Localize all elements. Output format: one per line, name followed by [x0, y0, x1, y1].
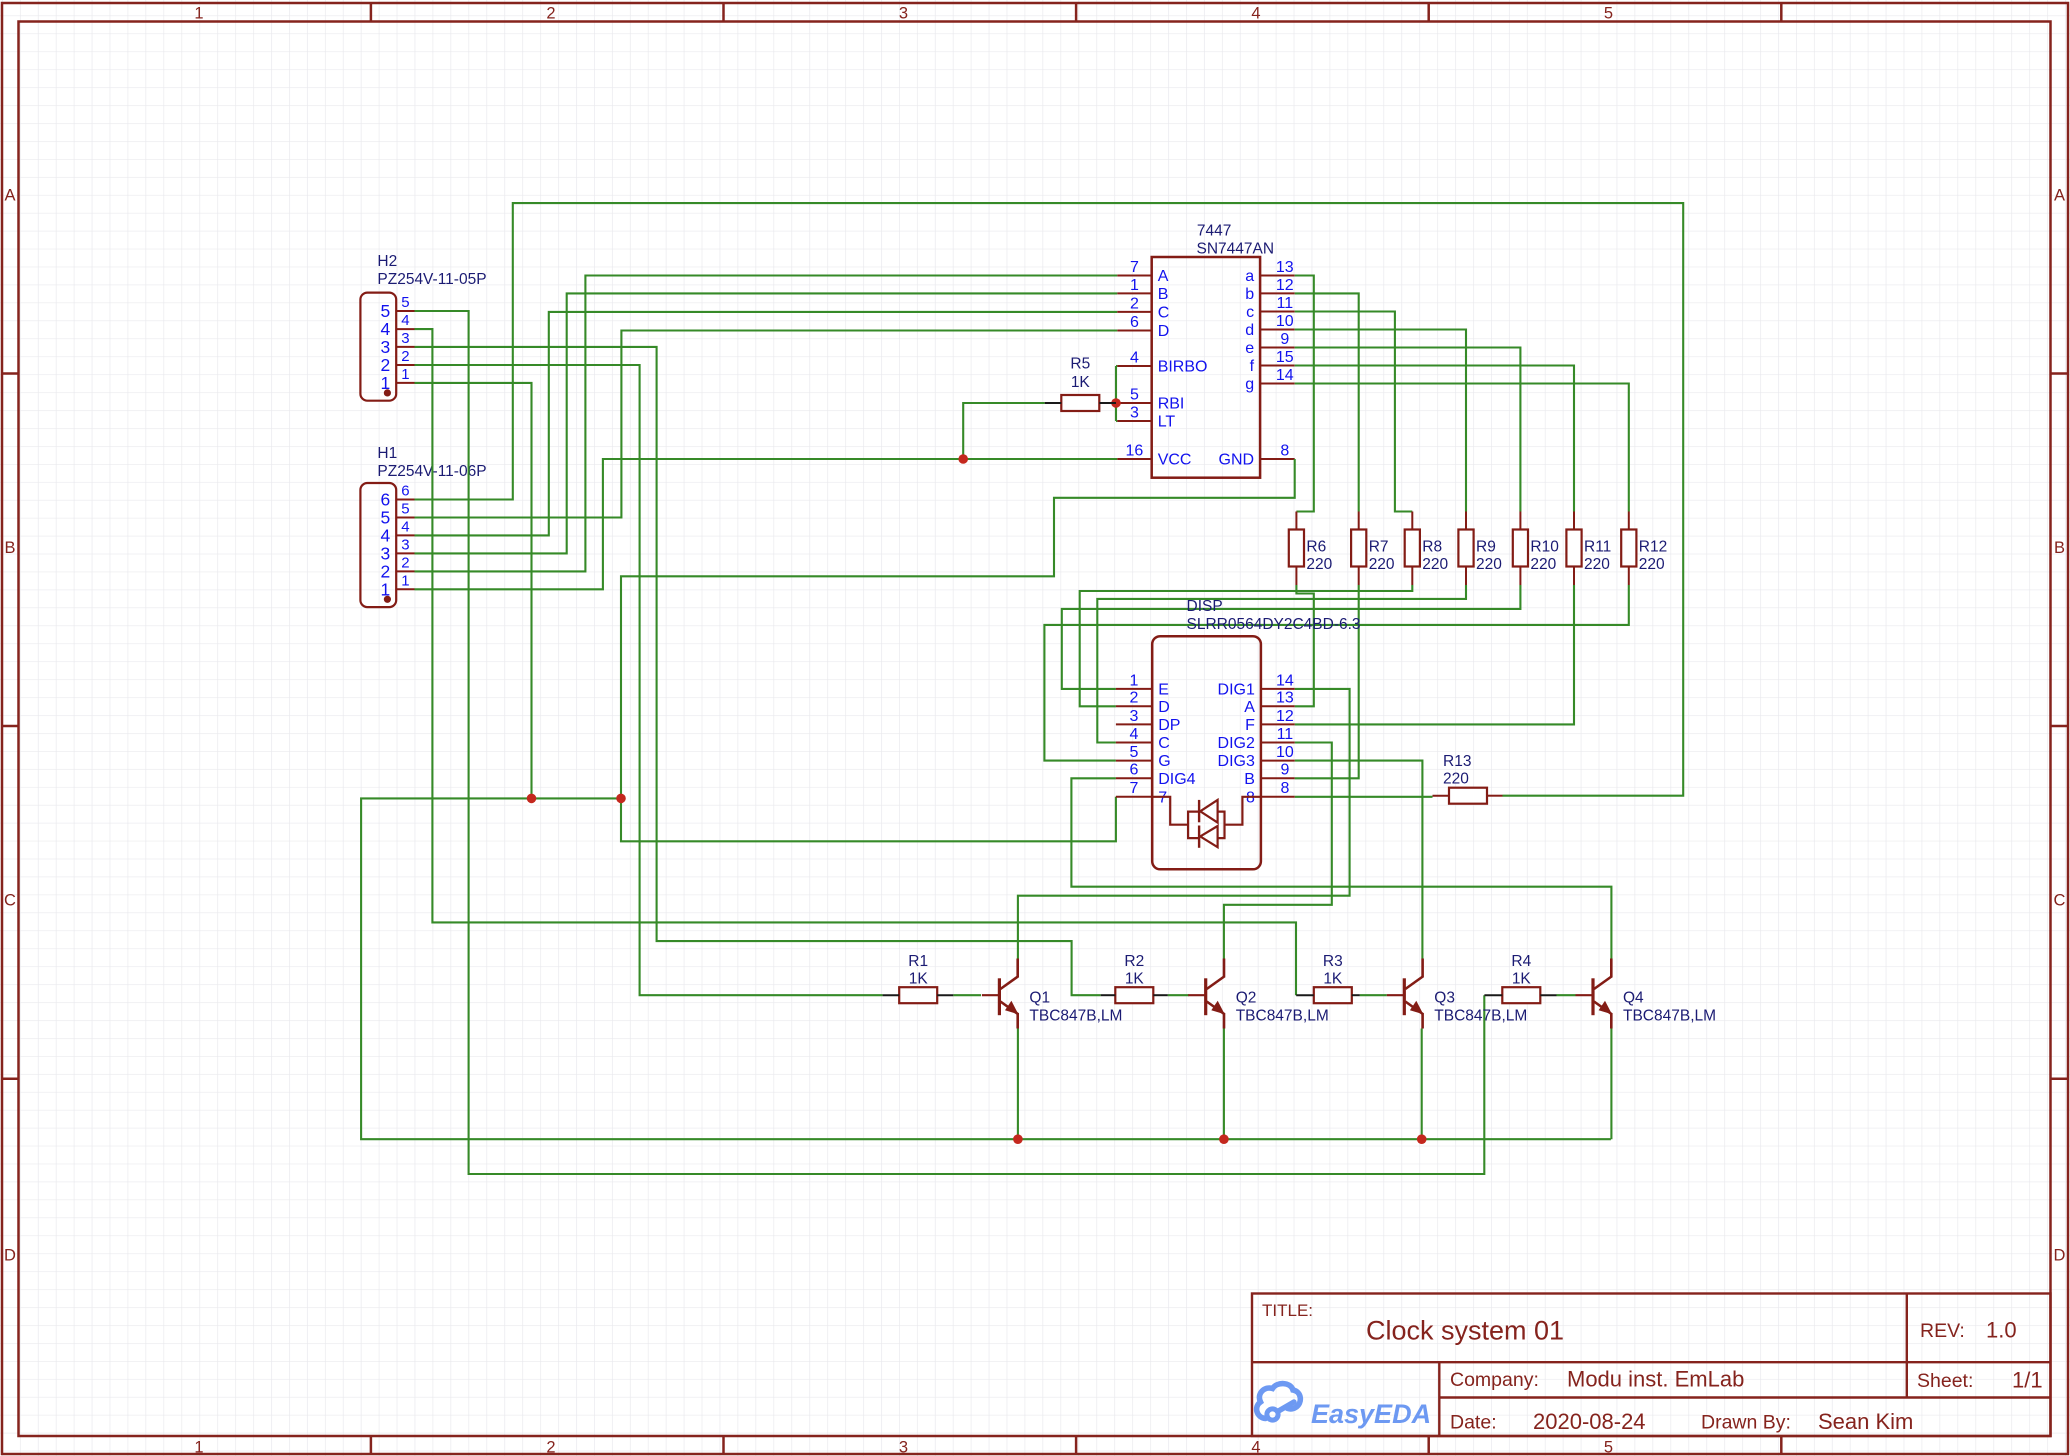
svg-text:2: 2 [401, 348, 409, 365]
DISP pin 11 DIG2 [1218, 726, 1295, 752]
wire net DIGsel3: H2 pin4 down to R3 feed [415, 329, 1297, 995]
svg-text:Sean Kim: Sean Kim [1818, 1409, 1913, 1434]
svg-text:SLRR0564DY2C4BD-6.3: SLRR0564DY2C4BD-6.3 [1187, 616, 1361, 633]
wire net GND: drop to DISP pin7 [621, 797, 1116, 842]
svg-text:3: 3 [899, 1439, 908, 1456]
resistor R3 1K body [1296, 987, 1360, 1003]
connector H1 pin 3 [381, 536, 415, 563]
connector H1 pin 1 [381, 572, 415, 599]
resistor R6 220 body [1289, 512, 1304, 586]
7447 pin 9 e [1245, 331, 1295, 357]
resistor R8 220 body [1405, 512, 1420, 586]
connector H1 pin-1 dot [384, 596, 391, 603]
wire net DIG4: DISP pin6 to Q4 collector [1071, 778, 1611, 958]
wire net segE: R10 bottom to DISP pin1 E [1062, 585, 1521, 689]
7447 pin 2 C [1117, 295, 1169, 321]
svg-text:R2: R2 [1124, 953, 1144, 970]
title block TITLE text [1262, 1301, 1313, 1320]
wire R1 to Q1 base [953, 994, 981, 996]
7447 pin 10 d [1245, 313, 1295, 339]
svg-text:2: 2 [401, 554, 409, 571]
svg-text:2: 2 [1130, 690, 1139, 707]
svg-text:1: 1 [194, 1439, 203, 1456]
resistor R9 220 body [1458, 512, 1473, 586]
resistor R4 1K body [1484, 987, 1556, 1003]
wire Q2 emitter to ground rail [1223, 1029, 1225, 1140]
svg-text:D: D [2054, 1247, 2066, 1265]
svg-text:R12: R12 [1639, 539, 1667, 556]
svg-text:220: 220 [1306, 556, 1332, 573]
connector H1 pin 2 [381, 554, 415, 581]
connector H2 pin 4 [381, 312, 415, 339]
svg-text:Date:: Date: [1450, 1412, 1497, 1434]
DISP pin 4 C [1116, 726, 1170, 752]
svg-text:F: F [1245, 717, 1255, 734]
svg-text:220: 220 [1584, 556, 1610, 573]
svg-text:E: E [1158, 681, 1169, 698]
svg-text:D: D [4, 1247, 16, 1265]
DISP pin 1 E [1116, 672, 1169, 698]
svg-text:PZ254V-11-05P: PZ254V-11-05P [377, 271, 486, 288]
svg-text:1: 1 [1130, 672, 1139, 689]
svg-text:1/1: 1/1 [2012, 1368, 2043, 1393]
svg-text:R5: R5 [1070, 356, 1090, 373]
wire net R5-RBI: BIRBO to LT tie [1115, 366, 1117, 421]
junction dot VCC/R5 branch [958, 454, 968, 464]
title block Company [1450, 1367, 1744, 1392]
svg-text:13: 13 [1276, 259, 1294, 276]
svg-text:12: 12 [1276, 708, 1294, 725]
svg-text:3: 3 [401, 536, 409, 553]
DISP pin 10 DIG3 [1218, 744, 1295, 770]
svg-text:DIG1: DIG1 [1218, 681, 1255, 698]
svg-text:C: C [1158, 735, 1170, 752]
wire Q3 emitter to ground rail [1421, 1029, 1423, 1140]
7447 pin 11 c [1246, 295, 1295, 321]
svg-text:R1: R1 [908, 953, 928, 970]
svg-text:RBI: RBI [1158, 396, 1185, 413]
wire net seg-d: 7447 pin10 to R9 top [1295, 330, 1466, 512]
op-amp U1 7447 SN7447AN body [1152, 257, 1260, 478]
resistor R2 1K body [1101, 987, 1168, 1003]
svg-text:5: 5 [1604, 1439, 1613, 1456]
svg-text:6: 6 [381, 490, 391, 510]
wire net segB: R7 bottom to DISP pin9 B [1295, 585, 1359, 778]
svg-text:R8: R8 [1422, 539, 1442, 556]
junction dot Q3 emitter rail [1417, 1134, 1427, 1144]
junction dot Q1 emitter rail [1013, 1134, 1023, 1144]
wire net DP/colon: DISP pin8 to R13 left [1295, 796, 1433, 798]
EasyEDA logo [1257, 1384, 1431, 1429]
connector H1 refdes+part labels [377, 445, 486, 480]
svg-text:REV:: REV: [1920, 1320, 1965, 1342]
svg-text:1: 1 [401, 366, 409, 383]
svg-text:1K: 1K [1071, 374, 1091, 391]
svg-text:1K: 1K [909, 971, 929, 988]
svg-text:5: 5 [401, 501, 409, 518]
wire net H1.6 to R13: H1 pin6 up and across top [415, 203, 1684, 796]
resistor R6 labels [1306, 539, 1332, 574]
wire net GND: H2 pin1 down to ground row [415, 383, 532, 799]
svg-text:15: 15 [1276, 349, 1294, 366]
svg-text:D: D [1158, 699, 1170, 716]
svg-text:G: G [1158, 753, 1170, 770]
7447 pin 16 VCC [1117, 442, 1191, 468]
svg-text:EasyEDA: EasyEDA [1311, 1399, 1431, 1429]
DISP pin 13 A [1244, 690, 1294, 716]
transistor Q2 labels [1236, 990, 1329, 1025]
svg-text:DIG2: DIG2 [1218, 735, 1255, 752]
svg-text:H1: H1 [377, 445, 397, 462]
DISP pin 3 DP [1116, 708, 1181, 734]
svg-text:A: A [4, 187, 15, 205]
resistor R13 220 body [1433, 788, 1503, 804]
svg-text:B: B [1158, 286, 1169, 303]
svg-text:5: 5 [1130, 386, 1139, 403]
title block frame [1252, 1294, 2051, 1437]
svg-text:6: 6 [401, 483, 409, 500]
svg-text:3: 3 [1130, 404, 1139, 421]
svg-text:D: D [1158, 323, 1170, 340]
resistor R8 labels [1422, 539, 1448, 574]
wire net DIGsel1: H2 pin2 down to R1 feed [415, 365, 883, 995]
svg-text:TBC847B,LM: TBC847B,LM [1623, 1008, 1716, 1025]
svg-text:R9: R9 [1476, 539, 1496, 556]
wire net seg-c: 7447 pin11 to R8 top [1295, 312, 1413, 512]
7447 pin 8 GND [1219, 442, 1295, 468]
svg-text:11: 11 [1276, 295, 1293, 312]
wire R2 to Q2 base [1168, 994, 1189, 996]
svg-text:R11: R11 [1584, 539, 1611, 556]
svg-text:9: 9 [1280, 331, 1289, 348]
svg-text:c: c [1246, 304, 1254, 321]
resistor R9 labels [1476, 539, 1502, 574]
resistor R12 220 body [1621, 512, 1636, 586]
svg-text:R4: R4 [1511, 953, 1531, 970]
svg-text:5: 5 [1604, 5, 1613, 23]
svg-text:4: 4 [401, 518, 409, 535]
wire net seg-e: 7447 pin9 to R10 top [1295, 348, 1521, 512]
wire net DIG2: DISP pin11 to Q2 collector [1224, 743, 1332, 959]
svg-text:R3: R3 [1323, 953, 1343, 970]
wire Q4 emitter to ground rail [1610, 1029, 1612, 1140]
DISP pin 9 B [1244, 762, 1294, 788]
resistor R3 labels [1323, 953, 1343, 988]
connector H2 pin 5 [381, 294, 415, 321]
svg-text:a: a [1245, 268, 1254, 285]
wire net A: H1 pin2 to 7447 pin7 A [415, 276, 1118, 572]
DISP refdes labels [1187, 598, 1361, 633]
wire net VCC: H1 pin1 up to VCC rail [415, 459, 1118, 589]
wire net seg-g: 7447 pin14 to R12 top [1295, 384, 1629, 512]
7447 pin 12 b [1245, 277, 1295, 303]
svg-text:A: A [1244, 699, 1255, 716]
svg-text:2020-08-24: 2020-08-24 [1533, 1409, 1646, 1434]
resistor R11 labels [1584, 539, 1611, 574]
7447 pin 15 f [1250, 349, 1295, 375]
wire net DIG3: DISP pin10 to Q3 collector [1295, 761, 1423, 959]
DISP pin 5 G [1116, 744, 1171, 770]
connector H2 body [360, 293, 396, 401]
wire net segC: R9 bottom to DISP pin4 C [1097, 585, 1466, 743]
svg-text:16: 16 [1126, 442, 1144, 459]
svg-text:1: 1 [1130, 277, 1139, 294]
svg-text:DISP: DISP [1187, 598, 1223, 615]
svg-text:H2: H2 [377, 253, 397, 270]
svg-text:3: 3 [899, 5, 908, 23]
display DISP body [1152, 636, 1261, 869]
transistor Q1 TBC847B [982, 959, 1019, 1029]
svg-text:10: 10 [1276, 744, 1294, 761]
svg-text:2: 2 [1130, 295, 1139, 312]
wire net VCC: branch up to R5 left [963, 403, 1044, 459]
connector H1 body [360, 483, 396, 607]
title block title value [1366, 1316, 1564, 1346]
wire net DIGsel2: H2 pin3 down to R2 feed [415, 347, 1101, 995]
DISP pin 7 7 [1116, 780, 1167, 806]
DISP pin 14 DIG1 [1218, 672, 1295, 698]
svg-text:B: B [1244, 771, 1255, 788]
wire net segA: R6 bottom to DISP pin13 A [1295, 585, 1314, 706]
wire R3 to Q3 base [1360, 994, 1387, 996]
resistor R11 220 body [1566, 512, 1581, 586]
DISP pin 6 DIG4 [1116, 762, 1196, 788]
resistor R12 labels [1639, 539, 1667, 574]
svg-text:4: 4 [1251, 5, 1260, 23]
svg-text:TBC847B,LM: TBC847B,LM [1236, 1008, 1329, 1025]
svg-text:DIG3: DIG3 [1218, 753, 1255, 770]
svg-text:5: 5 [401, 294, 409, 311]
svg-text:4: 4 [381, 525, 391, 545]
connector H2 pin 2 [381, 348, 415, 375]
connector H1 pin 4 [381, 518, 415, 545]
junction dot RBI/R5 [1111, 398, 1121, 408]
svg-text:TBC847B,LM: TBC847B,LM [1029, 1008, 1122, 1025]
svg-text:5: 5 [1130, 744, 1139, 761]
svg-text:R10: R10 [1530, 539, 1559, 556]
svg-text:A: A [2054, 187, 2065, 205]
transistor Q1 labels [1029, 990, 1122, 1025]
transistor Q4 labels [1623, 990, 1716, 1025]
resistor R10 labels [1530, 539, 1559, 574]
svg-text:2: 2 [546, 5, 555, 23]
svg-text:Q1: Q1 [1029, 990, 1050, 1007]
transistor Q2 TBC847B [1188, 959, 1225, 1029]
svg-text:TBC847B,LM: TBC847B,LM [1434, 1008, 1527, 1025]
resistor R5 1K body [1045, 395, 1116, 411]
wire net D: H1 pin5 to 7447 pin6 D [415, 331, 1118, 518]
svg-text:4: 4 [1130, 726, 1139, 743]
svg-text:Q4: Q4 [1623, 990, 1644, 1007]
connector H2 pin 3 [381, 330, 415, 357]
svg-text:11: 11 [1277, 726, 1294, 743]
title block Drawn By [1701, 1409, 1913, 1434]
7447 pin 5 RBI [1117, 386, 1184, 412]
wire net GND: ground row to left riser and emitter rail [361, 798, 1611, 1139]
svg-text:3: 3 [401, 330, 409, 347]
svg-text:VCC: VCC [1158, 452, 1192, 469]
connector H1 pin 6 [381, 483, 415, 510]
resistor R2 labels [1124, 953, 1144, 988]
svg-text:220: 220 [1422, 556, 1448, 573]
svg-text:C: C [1158, 304, 1170, 321]
svg-text:C: C [2054, 892, 2066, 910]
svg-text:4: 4 [1130, 349, 1139, 366]
svg-text:1: 1 [194, 5, 203, 23]
svg-text:7: 7 [1130, 780, 1139, 797]
svg-text:C: C [4, 892, 16, 910]
svg-text:220: 220 [1530, 556, 1556, 573]
wire net DIGsel4: H2 pin5 down to bottom rail [415, 311, 1485, 1174]
svg-text:Q3: Q3 [1434, 990, 1455, 1007]
wire R4 to Q4 base [1557, 994, 1576, 996]
svg-text:8: 8 [1280, 442, 1289, 459]
svg-text:4: 4 [401, 312, 409, 329]
svg-text:7: 7 [1130, 259, 1139, 276]
7447 pin 1 B [1117, 277, 1168, 303]
svg-text:Company:: Company: [1450, 1369, 1539, 1391]
svg-text:g: g [1245, 376, 1254, 393]
svg-text:6: 6 [1130, 314, 1139, 331]
svg-text:DIG4: DIG4 [1158, 771, 1195, 788]
svg-text:B: B [2054, 539, 2065, 557]
svg-text:7447: 7447 [1197, 223, 1231, 240]
wire net segD: R8 bottom to DISP pin2 D [1080, 585, 1413, 706]
svg-text:10: 10 [1276, 313, 1294, 330]
wire 7447 BIRBO stub tie horizontal [1116, 365, 1117, 367]
transistor Q3 TBC847B [1387, 959, 1424, 1029]
connector H2 pin 1 [381, 366, 415, 393]
svg-text:GND: GND [1219, 452, 1255, 469]
DISP pin 2 D [1116, 690, 1170, 716]
svg-text:d: d [1245, 322, 1254, 339]
svg-text:9: 9 [1280, 762, 1289, 779]
7447 refdes labels [1197, 223, 1275, 258]
svg-text:220: 220 [1639, 556, 1665, 573]
svg-text:8: 8 [1280, 780, 1289, 797]
DISP internal anti-parallel LED symbol [1152, 797, 1261, 848]
wire net B: H1 pin3 to 7447 pin1 B [415, 293, 1118, 553]
svg-text:5: 5 [381, 301, 391, 321]
svg-text:R7: R7 [1369, 539, 1389, 556]
7447 pin 13 a [1245, 259, 1295, 285]
svg-text:b: b [1245, 286, 1254, 303]
connector H1 pin 5 [381, 501, 415, 528]
resistor R7 labels [1369, 539, 1395, 574]
svg-text:2: 2 [546, 1439, 555, 1456]
svg-text:3: 3 [1130, 708, 1139, 725]
transistor Q3 labels [1434, 990, 1527, 1025]
svg-text:TITLE:: TITLE: [1262, 1301, 1313, 1320]
svg-text:14: 14 [1276, 367, 1294, 384]
DISP pin 12 F [1245, 708, 1295, 734]
svg-text:13: 13 [1276, 690, 1294, 707]
wire Q1 emitter to ground rail [1017, 1029, 1019, 1140]
wire net segG: R12 bottom to DISP pin5 G [1044, 585, 1628, 761]
connector H2 pin-1 dot [384, 389, 391, 396]
svg-text:6: 6 [1130, 762, 1139, 779]
title block Date [1450, 1409, 1646, 1434]
wire net seg-a: 7447 pin13 to R6 top [1295, 276, 1314, 512]
junction dot Q2 emitter rail [1219, 1134, 1229, 1144]
svg-text:f: f [1250, 358, 1255, 375]
svg-text:220: 220 [1443, 771, 1469, 788]
junction dot ground row/DISP7 drop [616, 794, 626, 804]
svg-text:A: A [1158, 268, 1169, 285]
wire net segF: R11 bottom to DISP pin12 F [1295, 585, 1574, 724]
resistor R10 220 body [1513, 512, 1528, 586]
svg-text:R6: R6 [1306, 539, 1326, 556]
title block Sheet [1917, 1368, 2043, 1393]
svg-text:12: 12 [1276, 277, 1294, 294]
svg-text:R13: R13 [1443, 753, 1471, 770]
wire net seg-f: 7447 pin15 to R11 top [1295, 366, 1574, 512]
resistor R1 1K body [883, 987, 954, 1003]
wire 7447 LT stub tie horizontal [1116, 420, 1117, 422]
svg-text:220: 220 [1369, 556, 1395, 573]
svg-text:3: 3 [381, 543, 391, 563]
resistor R13 labels [1443, 753, 1471, 788]
wire net GND: 7447 pin8 down-left to ground row [621, 459, 1295, 798]
svg-text:DP: DP [1158, 717, 1180, 734]
transistor Q4 TBC847B [1576, 959, 1613, 1029]
svg-text:Modu inst. EmLab: Modu inst. EmLab [1567, 1367, 1744, 1392]
svg-text:1K: 1K [1512, 971, 1532, 988]
DISP pin 8 8 [1246, 780, 1295, 806]
svg-text:1: 1 [401, 572, 409, 589]
svg-text:220: 220 [1476, 556, 1502, 573]
7447 pin 4 BIRBO [1117, 349, 1207, 375]
svg-text:LT: LT [1158, 414, 1176, 431]
7447 pin 14 g [1245, 367, 1295, 393]
svg-text:Q2: Q2 [1236, 990, 1257, 1007]
svg-text:14: 14 [1276, 672, 1294, 689]
svg-text:SN7447AN: SN7447AN [1197, 241, 1275, 258]
svg-text:1K: 1K [1125, 971, 1145, 988]
wire net C: H1 pin4 to 7447 pin2 C [415, 312, 1118, 536]
resistor R7 220 body [1351, 512, 1366, 586]
svg-text:Drawn By:: Drawn By: [1701, 1412, 1791, 1434]
svg-text:1K: 1K [1323, 971, 1343, 988]
connector H2 refdes+part labels [377, 253, 486, 288]
wire net seg-b: 7447 pin12 to R7 top [1295, 293, 1359, 511]
7447 pin 7 A [1117, 259, 1169, 285]
svg-text:e: e [1245, 340, 1254, 357]
svg-text:4: 4 [1251, 1439, 1260, 1456]
svg-text:BIRBO: BIRBO [1158, 359, 1208, 376]
junction dot H2.1/ground row [527, 794, 537, 804]
title block REV [1920, 1318, 2017, 1343]
resistor R5 labels [1070, 356, 1090, 392]
7447 pin 6 D [1117, 314, 1169, 340]
7447 pin 3 LT [1117, 404, 1175, 430]
resistor R4 labels [1511, 953, 1531, 988]
svg-text:B: B [4, 539, 15, 557]
svg-text:Clock system 01: Clock system 01 [1366, 1316, 1564, 1346]
svg-text:1.0: 1.0 [1986, 1318, 2017, 1343]
wire net DIG1: DISP pin14 to Q1 collector [1018, 689, 1350, 959]
resistor R1 labels [908, 953, 928, 988]
svg-text:Sheet:: Sheet: [1917, 1370, 1973, 1392]
svg-text:3: 3 [381, 337, 391, 357]
